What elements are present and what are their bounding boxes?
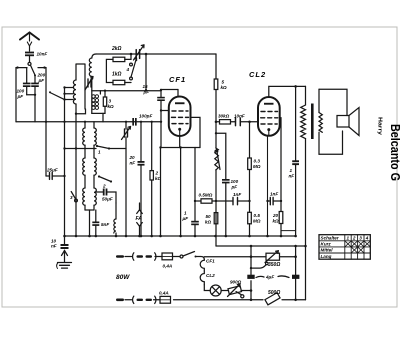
resistor 5kOhm [214, 54, 227, 122]
mains plug pin 1 [116, 255, 124, 258]
switch heater short [236, 292, 244, 298]
svg-text:Belcanto G: Belcanto G [388, 124, 400, 181]
coil L3 oscillator [92, 91, 105, 122]
capacitor 200pF [31, 73, 45, 95]
lamp dial [210, 285, 228, 296]
capacitor 50uF [96, 189, 116, 204]
svg-text:500Ω: 500Ω [268, 290, 280, 296]
svg-text:100: 100 [231, 179, 239, 184]
variable capacitor C-tune1 [85, 77, 93, 91]
capacitor 1uF [182, 200, 199, 236]
wire bus ground y236 [65, 235, 297, 238]
svg-text:30kΩ: 30kΩ [218, 114, 230, 119]
svg-text:CL2: CL2 [249, 70, 266, 79]
table band switch [319, 235, 370, 260]
svg-text:1: 1 [184, 211, 187, 216]
svg-text:FA: FA [136, 216, 143, 222]
svg-text:4: 4 [126, 67, 130, 72]
svg-text:μF: μF [182, 216, 189, 221]
resistor 900Ohm variable [228, 280, 253, 297]
switch blade band [49, 91, 64, 99]
switch 2 [98, 175, 112, 188]
svg-text:100pF: 100pF [139, 114, 152, 119]
antenna input box [16, 66, 46, 176]
svg-text:1kΩ: 1kΩ [112, 72, 122, 78]
svg-text:0.5MΩ: 0.5MΩ [199, 193, 213, 198]
svg-text:pF: pF [38, 78, 45, 83]
svg-text:pF: pF [17, 94, 24, 99]
svg-text:kΩ: kΩ [108, 104, 115, 109]
svg-text:1: 1 [290, 168, 293, 173]
svg-text:Harry: Harry [377, 117, 383, 136]
svg-text:Kurz: Kurz [321, 242, 332, 247]
resistor 2kOhm cathode [150, 121, 162, 236]
svg-text:kΩ: kΩ [273, 219, 280, 224]
capacitor 25uF [46, 168, 66, 180]
wire bottom row y299.8 [154, 299, 306, 301]
resistor 2kOhm [106, 46, 131, 83]
wire heater row y256.5 [125, 255, 297, 259]
transformer core [311, 104, 314, 140]
capacitor 4uF left [247, 275, 254, 279]
potentiometer 350Ohm [265, 251, 280, 268]
svg-text:0,4A: 0,4A [163, 264, 173, 269]
svg-text:350Ω: 350Ω [268, 262, 280, 268]
svg-text:4: 4 [365, 236, 369, 241]
wire y133 branch [216, 133, 226, 179]
capacitor 1nF AF [233, 192, 250, 205]
svg-text:kΩ: kΩ [205, 220, 212, 225]
capacitor 5nF [92, 210, 109, 236]
wire cap junction [27, 94, 37, 122]
wire bus2 y246 [216, 245, 307, 248]
transformer T-out secondary [319, 89, 322, 154]
resistor 0.3MOhm [248, 122, 261, 213]
capacitor 10nF coupling [234, 114, 258, 126]
coil L2 osc feedback winding [89, 58, 92, 91]
label 4uF [256, 275, 289, 280]
svg-text:2: 2 [102, 184, 106, 189]
svg-text:15: 15 [143, 84, 149, 89]
svg-text:0.5: 0.5 [254, 213, 261, 218]
variable capacitor osc tune [122, 122, 131, 236]
capacitor 10nF (antenna) [25, 52, 47, 63]
tube CF1 [169, 75, 191, 136]
svg-text:pF: pF [231, 185, 238, 190]
svg-text:5nF: 5nF [101, 222, 109, 227]
capacitor 1nF tone [289, 86, 300, 236]
svg-text:20: 20 [272, 213, 279, 218]
svg-text:50: 50 [206, 214, 212, 219]
svg-text:0,4A: 0,4A [159, 291, 169, 296]
wire CL2 cathode [266, 136, 269, 236]
svg-text:200: 200 [37, 73, 46, 78]
svg-text:50μF: 50μF [102, 197, 113, 202]
fuse 0.4A lower [159, 291, 171, 304]
coil FA coupling [114, 203, 116, 236]
svg-text:2: 2 [155, 171, 159, 176]
wire AF line y201 [195, 200, 217, 202]
node FA terminal [136, 203, 143, 236]
transformer T-out primary [301, 86, 306, 299]
mains plug pin 2 [116, 299, 124, 302]
svg-text:MΩ: MΩ [253, 219, 261, 224]
wire top rail [92, 53, 216, 58]
capacitor 1nF cathode [268, 192, 283, 205]
capacitor 100pF [17, 68, 31, 99]
svg-text:3: 3 [359, 236, 362, 241]
trimmer capacitor [134, 45, 145, 60]
svg-text:900Ω: 900Ω [230, 280, 242, 285]
tube CL2 [249, 70, 280, 136]
coil taps [63, 86, 73, 100]
svg-text:1: 1 [347, 236, 350, 241]
ground [57, 251, 72, 269]
svg-text:100: 100 [17, 89, 25, 94]
svg-text:Lang: Lang [321, 254, 332, 259]
svg-text:25μF: 25μF [46, 168, 58, 173]
resistor 20kOhm [272, 118, 296, 236]
svg-text:2kΩ: 2kΩ [111, 46, 122, 52]
svg-text:CF1: CF1 [169, 75, 186, 84]
svg-text:MΩ: MΩ [253, 164, 261, 169]
switch 3 [70, 192, 77, 202]
svg-text:nF: nF [51, 244, 57, 249]
resistor 0.5MOhm AF [199, 193, 234, 204]
coil T2 secondary lower [83, 188, 97, 236]
wire CF1 cathode net [159, 117, 200, 236]
svg-text:pF: pF [143, 90, 150, 95]
capacitor 100pF osc [132, 114, 152, 126]
svg-text:nF: nF [289, 174, 295, 179]
svg-text:3: 3 [70, 195, 73, 200]
capacitor 20nF [129, 121, 145, 236]
svg-text:CL2: CL2 [206, 273, 215, 278]
svg-text:2: 2 [352, 236, 356, 241]
switch 1 [63, 145, 126, 155]
wire grid top line y90 [100, 54, 178, 97]
svg-text:kΩ: kΩ [221, 85, 228, 90]
svg-text:3: 3 [109, 99, 112, 104]
resistor 50kOhm [205, 213, 218, 225]
svg-text:0.3: 0.3 [254, 159, 261, 164]
svg-text:nF: nF [130, 161, 136, 166]
svg-text:Schalter: Schalter [321, 236, 339, 241]
svg-text:Mittel: Mittel [321, 248, 334, 253]
ground chain 10nF [51, 235, 69, 249]
svg-text:CF1: CF1 [206, 259, 215, 264]
svg-text:10nF: 10nF [37, 52, 48, 57]
resistor 0.5MOhm grid [248, 200, 261, 236]
resistor 1kOhm [112, 72, 131, 85]
resistor 3kOhm [103, 90, 114, 114]
wire grid line y122 [16, 121, 161, 123]
svg-text:1nF: 1nF [233, 192, 241, 197]
switch 4 [126, 58, 137, 80]
svg-text:4μF: 4μF [265, 275, 274, 280]
wire mid column x251 [250, 246, 253, 301]
svg-text:5: 5 [222, 80, 225, 85]
antenna [20, 33, 39, 52]
wire left drop x64 [64, 88, 66, 237]
svg-text:1: 1 [98, 150, 101, 155]
capacitor 4uF right [292, 246, 299, 301]
coil L1 antenna coil [73, 64, 85, 236]
wire CL2 anode rail [269, 85, 306, 97]
capacitor 100pF AVC [222, 179, 239, 236]
speaker [319, 89, 359, 154]
coil T2 primary upper [83, 121, 97, 188]
connector 1 [133, 253, 156, 260]
connector 2 [133, 296, 156, 303]
svg-text:1nF: 1nF [270, 192, 278, 197]
resistor 30kOhm [215, 114, 236, 125]
potentiometer volume [215, 122, 220, 246]
svg-text:20: 20 [129, 155, 136, 160]
svg-text:80W: 80W [116, 274, 130, 281]
fuse 0.4A upper [162, 253, 173, 269]
svg-text:10nF: 10nF [234, 114, 245, 119]
switch S-ant [28, 62, 36, 76]
wire 350 wiper [251, 262, 268, 268]
switch mains [180, 252, 197, 259]
capacitor 15pF [143, 84, 169, 148]
resistor 500Ohm variable [265, 293, 280, 305]
heater chain CF1 CL2 [200, 259, 215, 291]
